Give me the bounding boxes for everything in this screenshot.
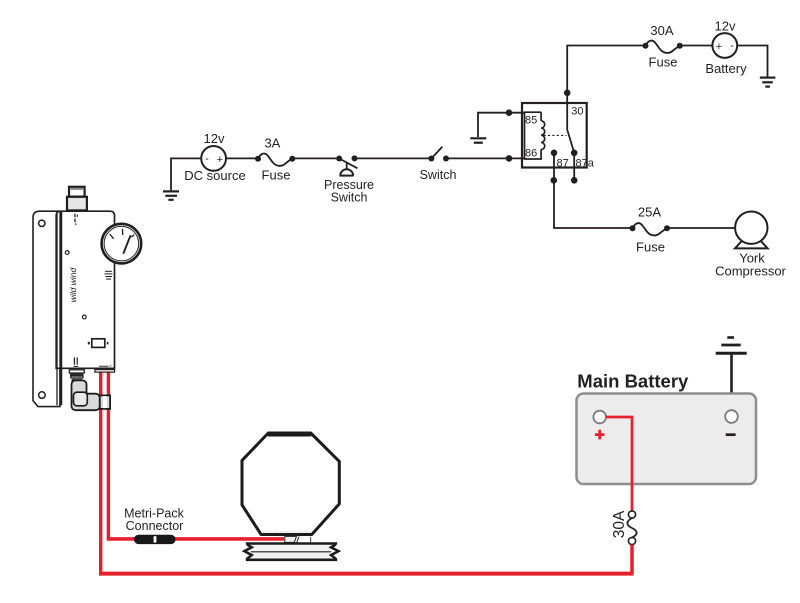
tiny wiring label (74, 357, 79, 367)
pressure unit mounting bracket (33, 211, 60, 406)
polarity label plus (595, 430, 605, 440)
svg-text:86: 86 (525, 148, 537, 160)
svg-text:DC source: DC source (184, 168, 245, 183)
svg-text:Fuse: Fuse (649, 55, 678, 70)
svg-text:Main Battery: Main Battery (577, 371, 689, 392)
wire from node A to fuse F1 (567, 46, 645, 104)
relay switch arm (567, 103, 574, 153)
ground at relay pin 85 (470, 138, 486, 142)
battery B1 12v (712, 33, 737, 58)
screw top (65, 251, 69, 255)
relay port tab (95, 370, 115, 373)
screw bottom (82, 315, 86, 319)
wire relay pin 85 to ground (478, 113, 525, 137)
svg-text:Battery: Battery (705, 61, 747, 76)
svg-text:Fuse: Fuse (262, 168, 291, 183)
pressure gauge (102, 224, 142, 264)
svg-text:3A: 3A (264, 136, 280, 151)
bracket hole bottom (39, 392, 46, 399)
svg-text:Switch: Switch (331, 191, 368, 205)
svg-text:+: + (716, 41, 722, 53)
svg-text:wild wind: wild wind (68, 267, 78, 302)
main battery BT1 (577, 394, 757, 485)
bracket hole top (39, 220, 45, 226)
svg-text:30A: 30A (611, 510, 628, 538)
terminal negative (725, 410, 738, 423)
clutch terminal (285, 536, 311, 542)
svg-text:-: - (205, 153, 209, 165)
svg-text:Fuse: Fuse (636, 240, 665, 255)
wire from battery B1 to ground (737, 46, 767, 77)
fuse F2 3A (255, 153, 295, 165)
node pin 87 (551, 177, 558, 184)
svg-text:Compressor: Compressor (715, 264, 786, 279)
wire fuse F4 down (630, 545, 634, 574)
pressure switch PS1 (336, 155, 357, 175)
wire positive terminal to fuse F4 (606, 417, 632, 511)
ground at DC source (163, 191, 179, 199)
wire to compressor clutch (107, 537, 284, 541)
node pin 85 (506, 109, 513, 116)
label Pressure Switch (324, 178, 374, 205)
wire fuse F2 to pressure switch PS1 (292, 157, 339, 159)
svg-text:25A: 25A (638, 205, 661, 220)
clutch pulley (244, 544, 338, 560)
wire ground to DC source V1 (171, 158, 201, 190)
label Metri-Pack Connector (124, 507, 184, 534)
metri-pack connector J1 (134, 535, 176, 544)
label York Compressor (715, 251, 786, 279)
air inlet fitting (67, 187, 87, 211)
wire relay pin 87a stub (573, 153, 575, 181)
fuse F3 25A (630, 223, 671, 235)
switch S1 (428, 147, 449, 162)
polarity label minus (726, 433, 736, 436)
svg-text:12v: 12v (715, 19, 736, 34)
relay U1 (522, 103, 595, 169)
wire main battery negative to ground (730, 353, 733, 410)
elbow connector (72, 380, 111, 410)
node pin 87a (571, 177, 578, 184)
chassis ground above main battery (716, 338, 747, 354)
node pin 30 (564, 90, 571, 97)
ground at battery B1 (760, 78, 776, 87)
york compressor M1 (735, 212, 768, 249)
svg-text:Switch: Switch (420, 168, 457, 182)
svg-text:30A: 30A (650, 23, 673, 38)
svg-text:85: 85 (525, 115, 537, 127)
relay coil (525, 112, 545, 159)
compressor body octagon (242, 433, 339, 535)
wire bottom power run (99, 572, 634, 576)
wire relay pin 87 to fuse F3 (554, 153, 633, 228)
wire pressure unit lead 2 (107, 370, 110, 539)
body edge lines (57, 212, 61, 405)
dashed actuator link (544, 134, 567, 136)
node pin 86 (506, 155, 513, 162)
svg-text:12v: 12v (204, 131, 225, 146)
svg-text:+: + (217, 154, 223, 166)
node contact 87 (551, 150, 558, 157)
fuse F4 30A (627, 511, 636, 545)
wire from fuse F1 to battery B1 (680, 45, 713, 47)
svg-text:-: - (730, 40, 734, 52)
svg-text:30: 30 (571, 106, 583, 118)
switch window (88, 339, 109, 348)
svg-text:87a: 87a (576, 157, 595, 169)
terminal positive (593, 411, 606, 424)
wire switch S1 to relay pin 86 (446, 157, 525, 159)
pressure unit body (56, 211, 114, 368)
spec text block (105, 271, 113, 280)
tiny port marks (74, 214, 78, 225)
svg-text:Connector: Connector (126, 519, 184, 533)
wire pressure switch PS1 to switch S1 (355, 157, 432, 159)
fuse F1 30A (643, 41, 683, 53)
outlet connector stack (69, 370, 84, 380)
relay port label (99, 365, 111, 367)
wire DC source V1 to fuse F2 (226, 157, 258, 159)
wire fuse F3 to compressor M1 (667, 227, 736, 229)
node contact 87a (571, 150, 578, 157)
wire pressure unit lead 1 (99, 370, 102, 576)
DC source V1 12v (201, 146, 226, 171)
svg-text:87: 87 (557, 157, 569, 169)
